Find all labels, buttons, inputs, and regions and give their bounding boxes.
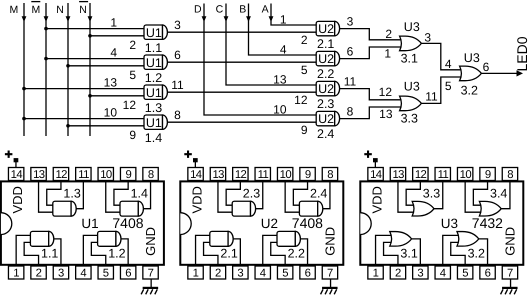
svg-text:3.1: 3.1 xyxy=(401,51,418,65)
net label LED0 xyxy=(514,36,528,71)
pin 11 label U1 xyxy=(171,78,184,92)
gate U1:1.1 xyxy=(30,231,58,260)
svg-text:6: 6 xyxy=(125,268,131,280)
svg-text:U2: U2 xyxy=(261,216,278,231)
pin 7 box U1 xyxy=(143,266,158,280)
node M (select input) xyxy=(10,3,27,136)
svg-text:3.2: 3.2 xyxy=(468,247,485,261)
svg-text:7: 7 xyxy=(507,268,513,280)
pin 7 box U3 xyxy=(502,266,517,280)
wire + to pin 14 U1 xyxy=(15,162,17,168)
gate U2:2.3 wiring xyxy=(218,181,263,212)
pin 1 label U2 xyxy=(280,12,287,26)
svg-text:7408: 7408 xyxy=(292,215,323,231)
label U3 xyxy=(441,216,458,231)
svg-text:2: 2 xyxy=(395,268,401,280)
pin 6 box U2 xyxy=(300,266,315,280)
node C (data input) xyxy=(216,3,319,85)
svg-text:4: 4 xyxy=(260,268,266,280)
wire U2 pin3 to U3 pin2 xyxy=(338,29,404,40)
pin 2 box U1 xyxy=(31,266,46,280)
svg-text:A: A xyxy=(262,3,269,15)
svg-text:VDD: VDD xyxy=(370,186,385,213)
wire U2 pin6 to U3 pin1 xyxy=(338,47,404,59)
wire U1 pin11 to U2 pin12 xyxy=(165,91,318,93)
gate U2:2.3 xyxy=(232,187,260,217)
pin 13 box U1 xyxy=(31,168,46,182)
gate U1:1.4 wiring xyxy=(106,181,151,212)
wire U1 pin1 from M-bar xyxy=(46,28,146,30)
svg-text:12: 12 xyxy=(379,85,393,99)
junction U1-pin13 xyxy=(22,87,26,91)
svg-text:13: 13 xyxy=(379,107,393,121)
AND gate U1.3 (U1:1.3) xyxy=(144,85,167,115)
pin 6 label U3 xyxy=(483,60,490,74)
AND gate U1.2 (U1:1.2) xyxy=(144,55,167,85)
pin 14 box U2 xyxy=(188,168,203,182)
pin 13 label U2 xyxy=(273,72,287,86)
pin 5 label U2 xyxy=(301,63,308,77)
svg-text:U1: U1 xyxy=(81,216,98,231)
gate U3:3.1 xyxy=(390,232,418,261)
pin 4 box U2 xyxy=(255,266,270,280)
junction square U2 pin 14 xyxy=(193,158,198,162)
svg-text:1: 1 xyxy=(13,268,19,280)
wire U1 pin9 from N xyxy=(68,125,146,127)
svg-text:U3: U3 xyxy=(441,216,458,231)
svg-text:5: 5 xyxy=(301,63,308,77)
pin 9 label U1 xyxy=(129,128,136,142)
svg-text:10: 10 xyxy=(273,102,287,116)
svg-text:3: 3 xyxy=(424,31,431,45)
pin 3 label U1 xyxy=(174,18,181,32)
wire + to pin 14 U2 xyxy=(194,162,196,168)
svg-text:9: 9 xyxy=(485,169,491,181)
svg-text:3: 3 xyxy=(58,268,64,280)
AND gate U2.2 (U2:2.2) xyxy=(316,51,339,81)
OR gate U3.2 (U3:3.2) xyxy=(460,51,482,98)
svg-text:1.2: 1.2 xyxy=(145,71,162,85)
svg-text:U3: U3 xyxy=(404,79,420,93)
wire U3 pin6 to LED0 xyxy=(479,70,523,76)
node M-bar (inverted select) xyxy=(31,2,48,136)
svg-text:7408: 7408 xyxy=(112,215,143,231)
svg-text:3: 3 xyxy=(417,268,423,280)
OR gate U3.1 (U3:3.1) xyxy=(400,20,422,65)
svg-text:12: 12 xyxy=(55,169,67,181)
pin 5 box U1 xyxy=(98,266,113,280)
pin 6 box U3 xyxy=(480,266,495,280)
label VDD U1 xyxy=(10,186,25,213)
pin 3 box U2 xyxy=(233,266,248,280)
pin 3 box U3 xyxy=(413,266,428,280)
label VDD U3 xyxy=(370,186,385,213)
svg-text:10: 10 xyxy=(104,106,118,120)
svg-text:9: 9 xyxy=(305,169,311,181)
svg-text:12: 12 xyxy=(123,98,137,112)
IC body U3 7432 xyxy=(360,181,523,264)
AND gate U2.1 (U2:2.1) xyxy=(316,21,339,51)
svg-text:3.4: 3.4 xyxy=(490,187,507,201)
svg-text:7432: 7432 xyxy=(472,215,503,231)
pin 8 label U1 xyxy=(174,108,181,122)
pin 2 label U2 xyxy=(301,33,308,47)
pin 10 box U3 xyxy=(457,168,472,182)
svg-text:4: 4 xyxy=(80,268,86,280)
pin 8 box U1 xyxy=(143,168,158,182)
svg-text:8: 8 xyxy=(347,105,354,119)
pin 1 box U3 xyxy=(368,266,383,280)
AND gate U2.4 (U2:2.4) xyxy=(316,111,339,141)
svg-text:3: 3 xyxy=(237,268,243,280)
gate U3:3.2 wiring xyxy=(443,235,488,265)
label 7408 xyxy=(292,215,323,231)
pin 10 label U1 xyxy=(104,106,118,120)
svg-text:8: 8 xyxy=(174,108,181,122)
svg-text:3.3: 3.3 xyxy=(401,111,418,125)
svg-text:8: 8 xyxy=(507,169,513,181)
svg-text:2: 2 xyxy=(301,33,308,47)
OR gate U3.3 (U3:3.3) xyxy=(400,79,422,125)
label U2 xyxy=(261,216,278,231)
pin 2 box U3 xyxy=(390,266,405,280)
pin 14 box U3 xyxy=(368,168,383,182)
gate U2:2.2 wiring xyxy=(263,235,308,265)
label U1 xyxy=(81,216,98,231)
junction square U3 pin 14 xyxy=(373,158,378,162)
svg-text:D: D xyxy=(194,3,202,15)
pin 1 box U2 xyxy=(188,266,203,280)
wire U3 pin11 to U3 pin5 xyxy=(419,77,463,103)
svg-text:2.4: 2.4 xyxy=(317,127,334,141)
pin 5 label U1 xyxy=(129,68,136,82)
svg-text:6: 6 xyxy=(174,48,181,62)
IC body U1 7408 xyxy=(1,181,164,264)
pin 8 box U3 xyxy=(502,168,517,182)
gate U1:1.2 xyxy=(98,231,126,260)
svg-text:GND: GND xyxy=(143,227,158,256)
node D (data input) xyxy=(194,3,318,115)
wire U1 pin8 to U2 pin9 xyxy=(165,121,318,123)
svg-text:3.3: 3.3 xyxy=(423,187,440,201)
svg-text:13: 13 xyxy=(273,72,287,86)
gate U3:3.1 wiring xyxy=(376,235,421,265)
pin 1 box U1 xyxy=(8,266,23,280)
pin 11 box U1 xyxy=(76,168,91,182)
svg-text:4: 4 xyxy=(445,57,452,71)
pin 2 label U3 xyxy=(385,27,392,41)
svg-text:U1: U1 xyxy=(146,86,162,100)
svg-text:U2: U2 xyxy=(318,52,334,66)
wire U1 pin2 from N-bar xyxy=(90,35,146,37)
pin 14 box U1 xyxy=(8,168,23,182)
svg-text:M: M xyxy=(32,4,41,16)
wire U3 pin3 to U3 pin4 xyxy=(419,43,463,69)
svg-text:1.4: 1.4 xyxy=(145,131,162,145)
pin 12 box U3 xyxy=(413,168,428,182)
svg-text:1.1: 1.1 xyxy=(145,41,162,55)
svg-text:2.2: 2.2 xyxy=(317,67,334,81)
svg-text:11: 11 xyxy=(438,169,449,181)
junction U1-pin10 xyxy=(22,117,26,121)
wire U1 pin10 from M xyxy=(24,118,146,120)
label GND U3 xyxy=(503,227,518,256)
svg-text:13: 13 xyxy=(33,169,45,181)
power VDD + symbol U1 xyxy=(5,151,12,158)
gate U3:3.3 xyxy=(412,187,440,216)
svg-text:1: 1 xyxy=(373,268,379,280)
svg-text:1.3: 1.3 xyxy=(63,187,80,201)
svg-text:13: 13 xyxy=(392,169,404,181)
wire U1 pin3 to U2 pin2 xyxy=(165,31,318,33)
svg-text:1: 1 xyxy=(110,16,117,30)
gate U2:2.1 wiring xyxy=(196,235,241,265)
wire U1 pin13 from M xyxy=(24,88,146,90)
svg-text:4: 4 xyxy=(110,46,117,60)
gate U1:1.1 wiring xyxy=(16,235,61,265)
AND gate U2.3 (U2:2.3) xyxy=(316,81,339,111)
svg-text:9: 9 xyxy=(301,123,308,137)
svg-text:8: 8 xyxy=(327,169,333,181)
svg-text:2.3: 2.3 xyxy=(243,187,260,201)
svg-text:13: 13 xyxy=(104,76,118,90)
svg-text:11: 11 xyxy=(344,75,357,89)
svg-text:U3: U3 xyxy=(464,51,480,65)
svg-text:3.1: 3.1 xyxy=(400,247,417,261)
svg-text:10: 10 xyxy=(460,169,472,181)
AND gate U1.1 (U1:1.1) xyxy=(144,25,167,55)
label GND U1 xyxy=(143,227,158,256)
ground U1 xyxy=(141,279,158,294)
pin 1 label U1 xyxy=(110,16,117,30)
pin 13 label U1 xyxy=(104,76,118,90)
svg-text:6: 6 xyxy=(483,60,490,74)
svg-text:9: 9 xyxy=(129,128,136,142)
notch U1 xyxy=(1,213,12,235)
svg-text:9: 9 xyxy=(126,169,132,181)
node A (data input) xyxy=(262,3,319,25)
svg-text:2.1: 2.1 xyxy=(220,247,237,261)
pin 11 box U3 xyxy=(435,168,450,182)
node B (data input) xyxy=(239,3,318,55)
gate U3:3.4 wiring xyxy=(465,181,510,212)
wire U1 pin12 from N-bar xyxy=(90,95,146,97)
label VDD U2 xyxy=(190,186,205,213)
svg-text:U1: U1 xyxy=(146,26,162,40)
svg-text:GND: GND xyxy=(323,227,338,256)
svg-text:2: 2 xyxy=(385,27,392,41)
svg-text:2: 2 xyxy=(129,38,136,52)
notch U2 xyxy=(180,213,191,235)
notch U3 xyxy=(360,213,371,235)
svg-text:14: 14 xyxy=(190,169,202,181)
ground U3 xyxy=(501,279,518,294)
pin 4 box U3 xyxy=(435,266,450,280)
svg-text:6: 6 xyxy=(485,268,491,280)
pin 11 box U2 xyxy=(255,168,270,182)
svg-text:10: 10 xyxy=(280,169,292,181)
svg-text:1: 1 xyxy=(384,47,391,61)
svg-text:11: 11 xyxy=(425,90,438,104)
svg-text:7: 7 xyxy=(148,268,154,280)
pin 4 label U1 xyxy=(110,46,117,60)
svg-text:13: 13 xyxy=(212,169,224,181)
svg-text:5: 5 xyxy=(462,268,468,280)
pin 10 box U2 xyxy=(277,168,292,182)
pin 8 box U2 xyxy=(322,168,337,182)
svg-text:1.1: 1.1 xyxy=(41,247,58,261)
pin 5 label U3 xyxy=(445,79,452,93)
pin 9 label U2 xyxy=(301,123,308,137)
pin 11 label U3 xyxy=(425,90,438,104)
pin 12 box U1 xyxy=(53,168,68,182)
gate U1:1.3 xyxy=(53,187,81,217)
svg-text:2: 2 xyxy=(215,268,221,280)
svg-text:2.2: 2.2 xyxy=(288,247,305,261)
svg-text:4: 4 xyxy=(280,42,287,56)
label GND U2 xyxy=(323,227,338,256)
svg-text:5: 5 xyxy=(103,268,109,280)
pin 3 label U2 xyxy=(347,15,354,29)
pin 8 label U2 xyxy=(347,105,354,119)
pin 5 box U3 xyxy=(457,266,472,280)
pin 2 box U2 xyxy=(210,266,225,280)
svg-text:1.3: 1.3 xyxy=(145,101,162,115)
pin 6 box U1 xyxy=(120,266,135,280)
svg-text:12: 12 xyxy=(235,169,247,181)
pin 12 label U2 xyxy=(294,93,308,107)
svg-text:5: 5 xyxy=(282,268,288,280)
wire U2 pin11 to U3 pin12 xyxy=(338,89,404,100)
svg-text:14: 14 xyxy=(370,169,382,181)
svg-text:14: 14 xyxy=(11,169,23,181)
svg-text:5: 5 xyxy=(445,79,452,93)
pin 5 box U2 xyxy=(277,266,292,280)
pin 13 box U3 xyxy=(390,168,405,182)
pin 7 box U2 xyxy=(322,266,337,280)
svg-text:11: 11 xyxy=(258,169,269,181)
svg-text:3: 3 xyxy=(347,15,354,29)
svg-text:12: 12 xyxy=(415,169,427,181)
svg-text:N: N xyxy=(56,4,64,16)
svg-text:U2: U2 xyxy=(318,22,334,36)
pin 6 label U2 xyxy=(347,45,354,59)
svg-text:2: 2 xyxy=(36,268,42,280)
svg-text:11: 11 xyxy=(171,78,184,92)
pin 9 box U3 xyxy=(480,168,495,182)
junction U1-pin4 xyxy=(44,57,48,61)
svg-text:1.2: 1.2 xyxy=(108,247,125,261)
svg-text:3.2: 3.2 xyxy=(461,84,478,98)
svg-text:2.4: 2.4 xyxy=(310,187,327,201)
pin 12 box U2 xyxy=(233,168,248,182)
junction U1-pin5 xyxy=(66,64,70,68)
wire U1 pin5 from N xyxy=(68,65,146,67)
pin 11 label U2 xyxy=(344,75,357,89)
junction square U1 pin 14 xyxy=(14,158,19,162)
IC body U2 7408 xyxy=(180,181,343,264)
gate U3:3.3 wiring xyxy=(398,181,443,212)
gate U1:1.4 xyxy=(120,187,148,217)
gate U1:1.2 wiring xyxy=(83,235,128,265)
svg-text:6: 6 xyxy=(305,268,311,280)
wire U2 pin8 to U3 pin13 xyxy=(338,107,404,119)
svg-text:10: 10 xyxy=(100,169,112,181)
label 7408 xyxy=(112,215,143,231)
pin 9 box U2 xyxy=(300,168,315,182)
power VDD + symbol U3 xyxy=(364,151,372,158)
svg-text:U2: U2 xyxy=(318,82,334,96)
gate U2:2.2 xyxy=(277,231,305,260)
svg-text:1: 1 xyxy=(193,268,199,280)
svg-text:U2: U2 xyxy=(318,112,334,126)
svg-text:1: 1 xyxy=(280,12,287,26)
svg-text:U3: U3 xyxy=(404,20,420,34)
svg-text:GND: GND xyxy=(503,227,518,256)
svg-text:C: C xyxy=(216,3,224,15)
svg-text:VDD: VDD xyxy=(190,186,205,213)
pin 6 label U1 xyxy=(174,48,181,62)
svg-text:LED0: LED0 xyxy=(514,36,528,71)
svg-text:3: 3 xyxy=(174,18,181,32)
junction U1-pin2 xyxy=(88,34,92,38)
pin 9 box U1 xyxy=(120,168,135,182)
svg-text:U1: U1 xyxy=(146,56,162,70)
svg-text:B: B xyxy=(239,3,246,15)
power VDD + symbol U2 xyxy=(184,151,192,158)
pin 3 label U3 xyxy=(424,31,431,45)
svg-text:U1: U1 xyxy=(146,116,162,130)
svg-text:8: 8 xyxy=(148,169,154,181)
pin 4 label U3 xyxy=(445,57,452,71)
node N (select input) xyxy=(56,3,70,136)
pin 4 box U1 xyxy=(76,266,91,280)
svg-text:11: 11 xyxy=(78,169,89,181)
pin 1 label U3 xyxy=(384,47,391,61)
svg-text:6: 6 xyxy=(347,45,354,59)
svg-text:4: 4 xyxy=(440,268,446,280)
pin 12 label U1 xyxy=(123,98,137,112)
wire + to pin 14 U3 xyxy=(374,162,376,168)
svg-text:2.3: 2.3 xyxy=(317,97,334,111)
svg-text:2.1: 2.1 xyxy=(317,37,334,51)
pin 2 label U1 xyxy=(129,38,136,52)
gate U2:2.4 xyxy=(299,187,327,217)
svg-text:5: 5 xyxy=(129,68,136,82)
svg-text:VDD: VDD xyxy=(10,186,25,213)
junction U1-pin12 xyxy=(88,94,92,98)
svg-text:7: 7 xyxy=(327,268,333,280)
node N-bar (inverted select) xyxy=(79,2,92,136)
junction U1-pin9 xyxy=(66,124,70,128)
svg-text:12: 12 xyxy=(294,93,308,107)
label 7432 xyxy=(472,215,503,231)
pin 3 box U1 xyxy=(53,266,68,280)
ground U2 xyxy=(321,279,338,294)
AND gate U1.4 (U1:1.4) xyxy=(144,115,167,145)
wire U1 pin4 from M-bar xyxy=(46,58,146,60)
pin 10 label U2 xyxy=(273,102,287,116)
junction U1-pin1 xyxy=(44,27,48,31)
pin 4 label U2 xyxy=(280,42,287,56)
svg-text:1.4: 1.4 xyxy=(131,187,148,201)
gate U2:2.4 wiring xyxy=(285,181,330,212)
gate U1:1.3 wiring xyxy=(39,181,84,212)
pin 13 label U3 xyxy=(379,107,393,121)
wire U1 pin6 to U2 pin5 xyxy=(165,61,318,63)
svg-text:M: M xyxy=(10,4,19,16)
gate U2:2.1 xyxy=(210,231,238,260)
